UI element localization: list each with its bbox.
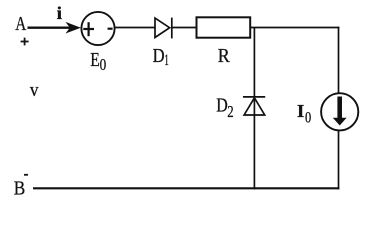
svg-text:i: i: [57, 3, 62, 23]
wire D1 to R: [172, 27, 197, 29]
svg-text:R: R: [218, 45, 230, 67]
diode D1: [155, 18, 170, 37]
minus polarity at node B: [24, 174, 28, 176]
current arrow i (wire from A into E0): [28, 27, 71, 29]
current source I0: [321, 93, 358, 130]
svg-text:E: E: [90, 50, 100, 71]
svg-text:0: 0: [100, 55, 107, 74]
plus polarity at node A: [21, 38, 29, 46]
svg-text:1: 1: [164, 52, 168, 69]
wire top right down to I0: [338, 27, 340, 94]
wire I0 to bottom right corner: [338, 130, 340, 190]
voltage source E0: [81, 12, 114, 45]
svg-text:0: 0: [305, 109, 311, 126]
wire E0 to D1: [115, 27, 156, 29]
bottom wire B rail: [33, 187, 339, 189]
svg-text:B: B: [14, 178, 26, 199]
svg-text:v: v: [30, 81, 39, 101]
svg-text:D: D: [216, 96, 228, 117]
resistor R: [197, 17, 251, 37]
svg-text:D: D: [153, 46, 165, 67]
wire junction to D2 (continuous through diode): [253, 28, 255, 190]
svg-text:A: A: [15, 14, 26, 35]
svg-text:2: 2: [227, 102, 233, 121]
wire R to top right corner: [250, 27, 339, 29]
svg-text:I: I: [297, 101, 304, 121]
diode D2: [243, 96, 265, 98]
